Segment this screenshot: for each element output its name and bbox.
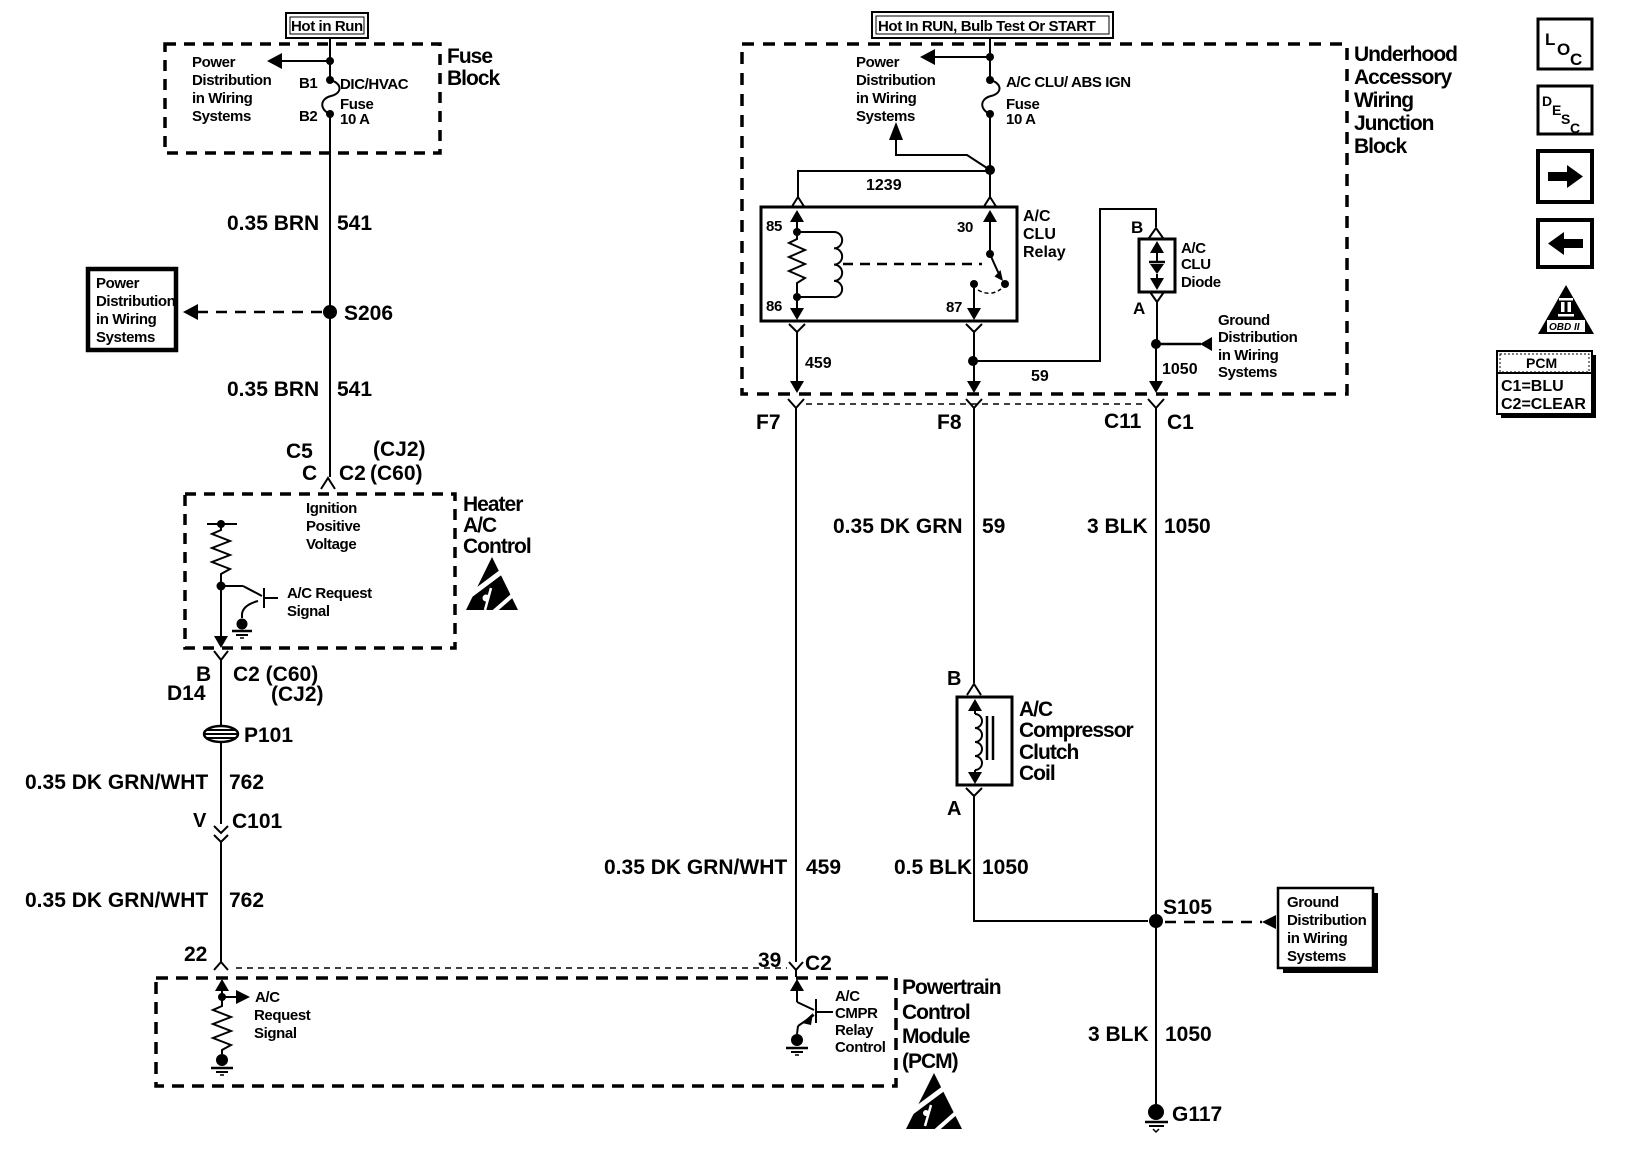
wire label 3 BLK 1050 (lower): [1088, 1023, 1212, 1046]
svg-text:in Wiring: in Wiring: [1287, 930, 1348, 947]
svg-text:B2: B2: [299, 108, 317, 125]
svg-text:S: S: [1561, 111, 1570, 127]
connector symbol at PCM pin 39: [789, 962, 803, 977]
svg-text:A/C: A/C: [463, 514, 497, 537]
pin 39 / C2 labels: [758, 949, 832, 975]
transistor: A/C CMPR relay driver: [797, 989, 833, 1034]
reference box: Ground Distribution in Wiring Systems: [1278, 888, 1378, 973]
svg-text:V: V: [193, 810, 207, 832]
svg-text:Power: Power: [96, 275, 140, 292]
svg-text:Distribution: Distribution: [192, 72, 272, 89]
wire label 0.5 BLK 1050: [894, 856, 1029, 879]
legend box: PCM C1=BLU C2=CLEAR: [1497, 351, 1596, 418]
node: 1239 junction: [985, 165, 995, 175]
clutch coil pin B connector: [947, 668, 981, 695]
svg-text:in Wiring: in Wiring: [1218, 347, 1279, 364]
thin dashed connector face line (junction block): [806, 403, 1146, 405]
PCM dashed box: [156, 978, 896, 1086]
svg-text:Power: Power: [856, 54, 900, 71]
svg-text:Distribution: Distribution: [1287, 912, 1367, 929]
relay coil resistor: [789, 232, 805, 297]
svg-text:Distribution: Distribution: [1218, 329, 1298, 346]
wire label 0.35 DK GRN/WHT 762 (upper): [25, 771, 264, 794]
svg-text:Powertrain: Powertrain: [902, 976, 1001, 999]
wire 541 upper: [329, 114, 331, 312]
connector labels F7 F8 C11 C1: [756, 410, 1194, 434]
svg-text:3 BLK: 3 BLK: [1087, 515, 1148, 538]
svg-text:A/C: A/C: [835, 988, 860, 1005]
label: Underhood Accessory Wiring Junction Block: [1354, 43, 1457, 158]
svg-text:1050: 1050: [982, 856, 1029, 879]
branch arrow up to power distribution: [889, 122, 990, 170]
svg-text:Relay: Relay: [835, 1022, 874, 1039]
svg-text:CLU: CLU: [1023, 226, 1056, 243]
relay coil: [797, 232, 842, 297]
svg-text:86: 86: [766, 298, 782, 315]
icon: forward arrow box: [1538, 151, 1592, 202]
svg-text:G117: G117: [1172, 1103, 1222, 1126]
svg-text:Wiring: Wiring: [1354, 89, 1413, 112]
connector symbol below relay pin 86: [789, 324, 805, 338]
wire: Hot in Run to fuse B1: [329, 38, 331, 80]
thin dashed connector face line (PCM): [236, 967, 787, 969]
arrow: A/C Request Signal (PCM): [222, 990, 250, 1004]
arrow to Power Distribution (fuse block): [267, 53, 334, 69]
svg-text:87: 87: [946, 299, 962, 316]
connector labels B / C2 (C60) / D14 / (CJ2): [167, 663, 324, 706]
Heater A/C Control dashed box: [185, 494, 455, 648]
svg-text:A: A: [1133, 299, 1145, 318]
value: A/C CLU/ ABS IGN Fuse 10 A: [1006, 74, 1131, 128]
relay pin 30: [957, 210, 997, 258]
svg-text:Systems: Systems: [1287, 948, 1346, 965]
icon: OBD II warning triangle: [1538, 285, 1594, 334]
svg-text:A/C: A/C: [1181, 240, 1206, 257]
svg-text:1239: 1239: [866, 177, 902, 194]
svg-text:Control: Control: [463, 535, 531, 558]
svg-text:Block: Block: [447, 67, 501, 90]
wire 459 inside junction block: [790, 338, 804, 393]
text: Ignition Positive Voltage: [306, 500, 360, 553]
svg-text:85: 85: [766, 218, 782, 235]
svg-text:Ignition: Ignition: [306, 500, 357, 517]
label: A/C CLU Diode: [1181, 240, 1221, 291]
svg-text:Signal: Signal: [254, 1025, 297, 1042]
svg-text:459: 459: [806, 856, 841, 879]
svg-text:0.35 BRN: 0.35 BRN: [227, 378, 319, 401]
svg-text:Control: Control: [835, 1039, 886, 1056]
svg-text:1050: 1050: [1162, 361, 1198, 378]
relay pin 86: [766, 293, 804, 320]
fuse block dashed box: [165, 44, 440, 153]
svg-text:C5: C5: [286, 440, 313, 463]
svg-text:Block: Block: [1354, 135, 1408, 158]
svg-text:A/C CLU/ ABS IGN: A/C CLU/ ABS IGN: [1006, 74, 1131, 91]
svg-text:C: C: [1570, 50, 1582, 69]
svg-text:Request: Request: [254, 1007, 311, 1024]
svg-text:F7: F7: [756, 411, 781, 434]
connector symbol below heater box: [214, 651, 228, 666]
value: DIC/HVAC Fuse 10 A: [340, 76, 409, 128]
svg-text:in Wiring: in Wiring: [192, 90, 253, 107]
svg-text:A/C: A/C: [1019, 698, 1053, 721]
label: Powertrain Control Module (PCM): [902, 976, 1001, 1073]
ground (PCM right): [786, 1034, 808, 1055]
wire 1050 S105 to G117: [1155, 921, 1157, 1104]
text: A/C CMPR Relay Control: [835, 988, 886, 1056]
svg-text:0.35 BRN: 0.35 BRN: [227, 212, 319, 235]
node: resistor bottom junction: [217, 582, 226, 591]
svg-text:B1: B1: [299, 75, 317, 92]
node: wire 59 junction: [968, 356, 978, 366]
resistor (heater control): [212, 524, 230, 582]
connector symbols at block bottom F7 F8 C11/C1: [788, 399, 804, 418]
svg-text:541: 541: [337, 212, 372, 235]
svg-text:C1: C1: [1167, 411, 1194, 434]
svg-text:Systems: Systems: [96, 329, 155, 346]
wire: fuse to 1239 junction: [989, 114, 991, 170]
connector C101: [193, 810, 283, 842]
relay switch travel arc: [978, 289, 1001, 293]
wire label 0.35 DK GRN/WHT 762 (lower): [25, 889, 264, 912]
label: A/C Compressor Clutch Coil: [1019, 698, 1134, 785]
svg-text:in Wiring: in Wiring: [856, 90, 917, 107]
fuse A/C CLU/ABS IGN symbol: [982, 76, 999, 118]
svg-text:Diode: Diode: [1181, 274, 1221, 291]
svg-text:541: 541: [337, 378, 372, 401]
connector symbol at heater box entry: [321, 478, 335, 489]
svg-text:O: O: [1557, 40, 1570, 59]
svg-text:E: E: [1552, 102, 1561, 118]
svg-text:Control: Control: [902, 1001, 970, 1024]
text: Power Distribution in Wiring Systems (underhood): [856, 54, 936, 125]
text: Power Distribution in Wiring Systems (fuse block): [192, 54, 272, 125]
svg-text:Signal: Signal: [287, 603, 330, 620]
svg-text:C2: C2: [805, 952, 832, 975]
ground G117: [1145, 1103, 1222, 1132]
svg-text:Accessory: Accessory: [1354, 66, 1453, 89]
svg-text:0.5 BLK: 0.5 BLK: [894, 856, 972, 879]
wire 1050 from clutch to S105: [974, 802, 1148, 921]
dashed reference line from S206: [183, 304, 324, 320]
svg-text:A/C: A/C: [1023, 208, 1051, 225]
PCM entry arrow (pin 22): [215, 979, 229, 997]
svg-text:B: B: [1131, 218, 1143, 237]
wire 459 to PCM pin 39: [795, 418, 797, 962]
label: Heater A/C Control: [463, 493, 531, 558]
svg-text:0.35 DK GRN/WHT: 0.35 DK GRN/WHT: [25, 889, 208, 912]
label: A/C CLU Relay: [1023, 208, 1066, 261]
node: ground ref junction: [1151, 339, 1161, 349]
PCM entry arrow (pin 39): [790, 979, 804, 1000]
svg-text:Junction: Junction: [1354, 112, 1434, 135]
svg-text:Hot In RUN, Bulb Test Or START: Hot In RUN, Bulb Test Or START: [878, 18, 1096, 35]
svg-text:39: 39: [758, 949, 781, 972]
svg-text:59: 59: [1031, 368, 1049, 385]
svg-text:L: L: [1545, 30, 1555, 49]
ground (heater control internal): [232, 619, 252, 639]
wire label 0.35 BRN 541 (lower): [227, 378, 372, 401]
ground distribution reference arrow (underhood): [1156, 337, 1212, 351]
svg-text:A: A: [947, 798, 961, 820]
connector C5/C2 labels: [286, 438, 426, 485]
resistor (PCM): [213, 997, 231, 1054]
wire: junction to diode branch: [973, 209, 1156, 361]
svg-text:0.35 DK GRN/WHT: 0.35 DK GRN/WHT: [604, 856, 787, 879]
diode pin B connector: [1131, 218, 1163, 238]
svg-text:DIC/HVAC: DIC/HVAC: [340, 76, 409, 93]
svg-text:Power: Power: [192, 54, 236, 71]
svg-text:Module: Module: [902, 1025, 970, 1048]
diode box: A/C CLU Diode: [1139, 239, 1175, 292]
wire label 3 BLK 1050 (upper): [1087, 515, 1211, 538]
switch: A/C request contact: [221, 586, 278, 618]
svg-text:Distribution: Distribution: [96, 293, 176, 310]
svg-text:(CJ2): (CJ2): [373, 438, 426, 461]
svg-text:0.35 DK GRN: 0.35 DK GRN: [833, 515, 963, 538]
svg-text:D: D: [1542, 93, 1552, 109]
wire 1050 inside junction block: [1149, 344, 1163, 393]
svg-text:59: 59: [982, 515, 1005, 538]
svg-text:D14: D14: [167, 682, 206, 705]
ground (PCM left): [211, 1054, 233, 1075]
svg-text:C: C: [1570, 120, 1580, 136]
svg-text:Clutch: Clutch: [1019, 741, 1079, 764]
wire: junction to box exit with down arrow: [214, 586, 228, 648]
wire to P101: [220, 666, 222, 726]
svg-text:Systems: Systems: [856, 108, 915, 125]
fuse DIC/HVAC 10A symbol: [322, 76, 339, 118]
wire 541 lower: [329, 312, 331, 477]
icon: LOC box: [1538, 19, 1592, 69]
wire 762 upper: [220, 742, 222, 824]
svg-text:Heater: Heater: [463, 493, 523, 516]
svg-text:F8: F8: [937, 411, 962, 434]
svg-text:22: 22: [184, 943, 207, 966]
svg-text:A/C: A/C: [255, 989, 280, 1006]
wire 1050 main to S105: [1155, 418, 1157, 914]
wire label 0.35 BRN 541 (upper): [227, 212, 372, 235]
clutch coil symbol: [968, 699, 993, 784]
svg-text:C11: C11: [1104, 410, 1142, 433]
text: A/C Request Signal (heater): [287, 585, 372, 620]
relay switch arm: [990, 254, 1009, 288]
icon: back arrow box: [1538, 220, 1592, 267]
node: ignition positive tick: [207, 520, 237, 528]
svg-text:762: 762: [229, 771, 264, 794]
text: A/C Request Signal (PCM): [254, 989, 311, 1042]
label box: Hot in Run: [286, 13, 368, 38]
connector symbol below relay pin 87: [966, 324, 982, 338]
wire 762 lower: [220, 842, 222, 962]
wire into relay pin 30: [989, 170, 991, 197]
connector symbol relay pin 30 (top): [983, 197, 997, 208]
relay actuation dashed link: [843, 263, 982, 266]
wire 59 to compressor clutch: [973, 418, 975, 683]
svg-text:B: B: [947, 668, 961, 690]
connector symbol at PCM pin 22: [214, 962, 228, 970]
icon: DESC box: [1538, 86, 1592, 136]
svg-text:459: 459: [805, 355, 832, 372]
svg-text:(CJ2): (CJ2): [271, 683, 324, 706]
svg-text:S105: S105: [1163, 896, 1212, 919]
wire: Hot In RUN to fuse: [989, 38, 991, 80]
svg-text:1050: 1050: [1165, 1023, 1212, 1046]
svg-text:A/C Request: A/C Request: [287, 585, 372, 602]
svg-text:C: C: [302, 462, 317, 485]
svg-text:Relay: Relay: [1023, 244, 1066, 261]
svg-text:Ground: Ground: [1218, 312, 1270, 329]
diode pin A connector: [1133, 292, 1164, 318]
svg-text:S206: S206: [344, 302, 393, 325]
wire 59 to junction: [973, 338, 975, 361]
svg-text:Systems: Systems: [1218, 364, 1277, 381]
splice S105: [1149, 896, 1212, 928]
wire 59 down: [967, 361, 981, 393]
svg-text:Distribution: Distribution: [856, 72, 936, 89]
dashed reference line from S105: [1165, 915, 1276, 929]
svg-text:P101: P101: [244, 724, 293, 747]
relay box: A/C CLU Relay: [761, 207, 1017, 321]
relay pin 85: [766, 210, 804, 236]
svg-text:(C60): (C60): [370, 462, 423, 485]
svg-text:in Wiring: in Wiring: [96, 311, 157, 328]
arrow to Power Distribution (underhood): [920, 49, 994, 65]
reference box: Power Distribution in Wiring Systems: [88, 269, 176, 350]
svg-text:Fuse: Fuse: [447, 45, 492, 68]
svg-text:762: 762: [229, 889, 264, 912]
node: A/C request junction: [218, 993, 226, 1001]
wire label 0.35 DK GRN/WHT 459: [604, 856, 841, 879]
svg-text:PCM: PCM: [1526, 355, 1557, 371]
svg-text:CMPR: CMPR: [835, 1005, 878, 1022]
svg-text:30: 30: [957, 219, 973, 236]
svg-text:Positive: Positive: [306, 518, 360, 535]
svg-text:Ground: Ground: [1287, 894, 1339, 911]
svg-text:C1=BLU: C1=BLU: [1501, 378, 1564, 395]
ESD symbol (heater): [466, 557, 522, 615]
connector symbol relay pin 85 (top): [791, 197, 805, 208]
svg-text:Hot in Run: Hot in Run: [291, 18, 363, 35]
wire: diode A to ground junction: [1156, 307, 1158, 344]
text: Ground Distribution in Wiring Systems (underhood): [1218, 312, 1298, 381]
svg-text:C2=CLEAR: C2=CLEAR: [1501, 396, 1586, 413]
label: Fuse Block: [447, 45, 501, 90]
svg-text:0.35 DK GRN/WHT: 0.35 DK GRN/WHT: [25, 771, 208, 794]
svg-text:3 BLK: 3 BLK: [1088, 1023, 1149, 1046]
svg-text:10 A: 10 A: [340, 111, 370, 128]
relay pin 87: [946, 280, 981, 320]
svg-text:Voltage: Voltage: [306, 536, 356, 553]
svg-text:Compressor: Compressor: [1019, 719, 1134, 742]
Underhood Accessory Wiring Junction Block dashed box: [742, 44, 1347, 394]
clutch coil pin A connector: [947, 788, 982, 820]
pass-through grommet P101: [204, 724, 293, 747]
splice S206: [323, 302, 393, 325]
svg-text:C101: C101: [232, 810, 283, 833]
svg-text:1050: 1050: [1164, 515, 1211, 538]
wire label 0.35 DK GRN 59: [833, 515, 1005, 538]
svg-text:CLU: CLU: [1181, 256, 1211, 273]
wire 1239 horizontal: [798, 171, 990, 197]
svg-text:C2: C2: [339, 462, 366, 485]
svg-text:Underhood: Underhood: [1354, 43, 1457, 66]
svg-text:(PCM): (PCM): [902, 1050, 958, 1073]
label box: Hot In RUN, Bulb Test Or START: [872, 12, 1113, 38]
coil box: A/C Compressor Clutch Coil: [957, 697, 1012, 785]
diode symbol: [1149, 241, 1165, 290]
svg-text:Coil: Coil: [1019, 762, 1055, 785]
svg-text:OBD II: OBD II: [1549, 322, 1580, 333]
svg-text:10 A: 10 A: [1006, 111, 1036, 128]
svg-text:Systems: Systems: [192, 108, 251, 125]
ESD symbol (PCM): [906, 1073, 966, 1134]
